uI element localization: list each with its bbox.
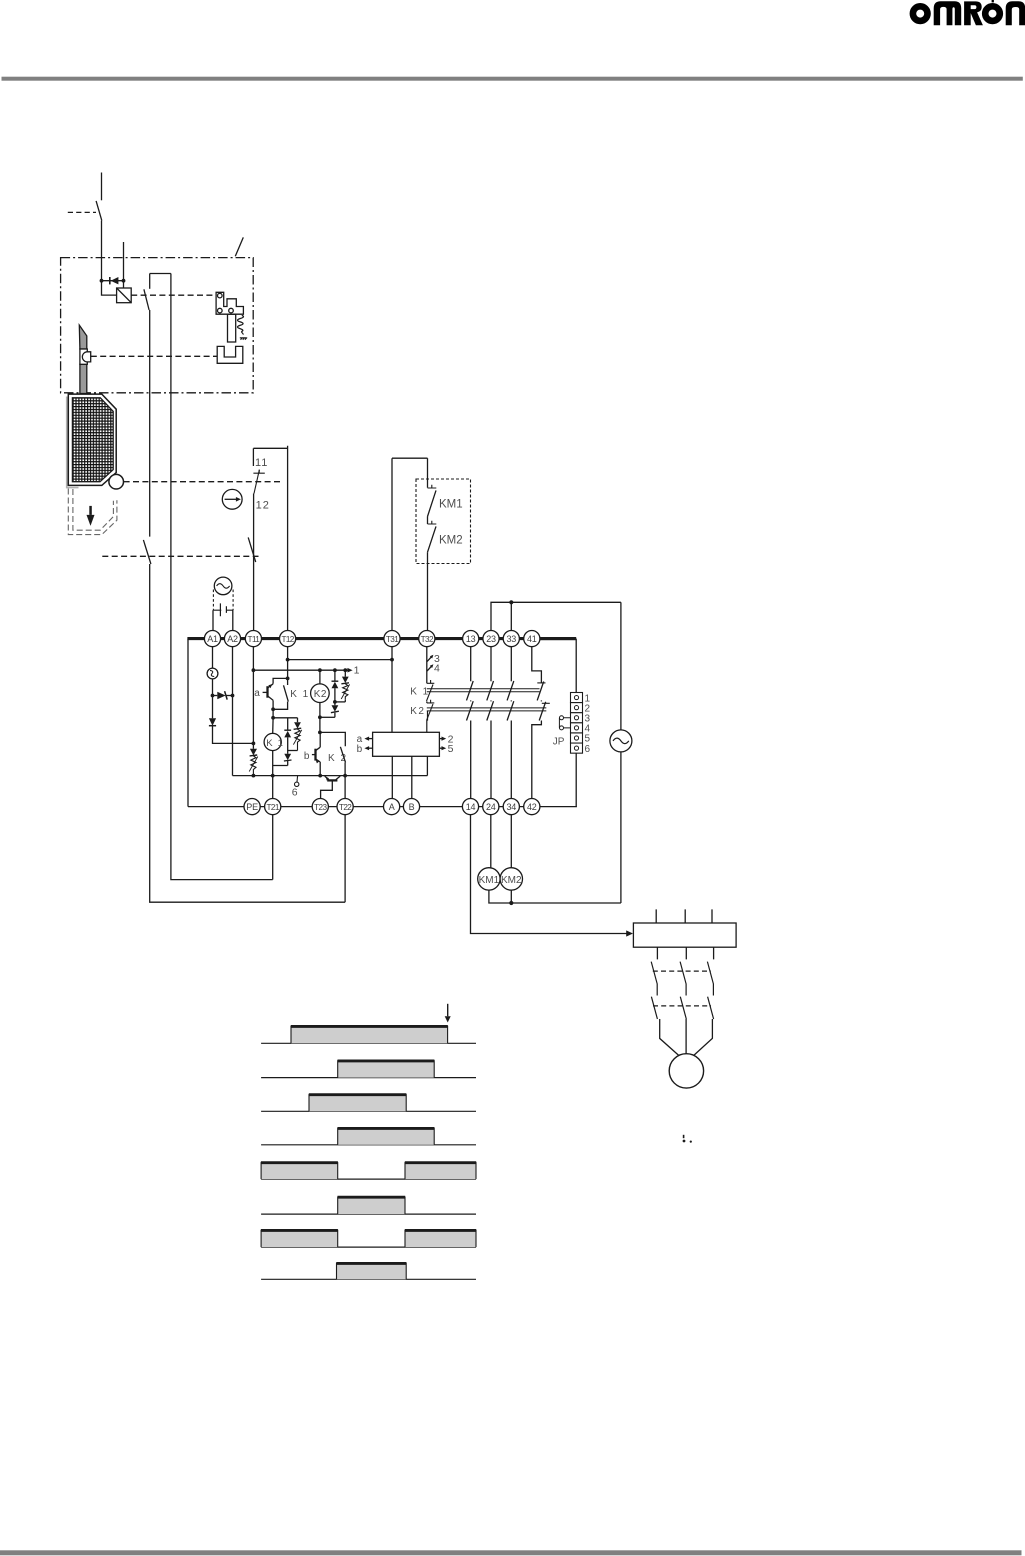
unit bottom terminal row line [188,806,577,808]
open door ghost outline (inner) [73,489,114,530]
wire left contact column middle [149,310,151,537]
svg-text:b: b [357,744,363,755]
wire 14 output to power terminal block [471,815,629,934]
door roller [109,474,124,489]
timing row 6 pulse [338,1197,406,1215]
wire into KM1 NC contact [427,458,429,488]
wire supply to A1 [212,610,214,630]
diode D1 (lock solenoid) [102,280,124,282]
internal 0V rail [233,775,428,777]
wire collector node down [272,709,274,718]
contact 11-12 blade [254,470,259,494]
wire left column to T22 [150,564,345,902]
terminal 14 [462,799,478,815]
svg-text:KM2: KM2 [439,535,463,547]
terminal PE [244,799,260,815]
contact K1 column stubs [273,678,288,709]
junction K2 coil bottom [318,715,322,719]
junction Q1 collector node [271,707,275,711]
terminal 13 [463,631,479,647]
direction-of-actuation symbol (circle with arrow) [222,489,242,509]
wire supply drop to disconnect switch [101,173,103,201]
door opening direction arrow [87,506,95,526]
dashed supply leads [213,590,233,611]
wire control block to terminal B [411,756,413,799]
unit left edge wire to PE [187,639,189,807]
control block (logic) [373,732,440,756]
contact KM1 NC blade [428,490,437,516]
wire 33 riser [510,602,512,630]
junction T22 column at rail [343,774,347,778]
wire Q2 emitter to 0V rail [319,762,321,776]
terminal T32 [419,631,435,647]
svg-text:A2: A2 [227,634,238,644]
timing row 2 baseline [261,1077,476,1079]
operation key (gray tongue) upper part [79,325,87,349]
wire 24 to KM1 coil [490,815,492,868]
connector plug symbol in supply leads [213,603,233,616]
svg-text:A1: A1 [207,634,218,644]
contact KM2 NC blade [428,526,437,552]
diode D2 on A1 column [209,718,216,725]
svg-text:5: 5 [448,743,454,755]
junction T11 column at internal rail [252,742,256,746]
wire right contact column to T21 [171,274,273,880]
terminal B [403,799,419,815]
svg-text:KM2: KM2 [501,875,522,886]
wire A2 column down to 0V rail [232,647,234,776]
svg-text:4: 4 [434,662,440,674]
dashed mechanical link lower contacts [102,555,258,557]
fuse F1 (circle with S) [207,668,218,679]
key notch box [80,349,87,364]
transistor Q3 monitor at T23 [321,776,341,799]
svg-text:42: 42 [527,802,537,812]
wire down to load AC source [620,602,622,730]
wire KM2 coil return [510,890,512,903]
node 1 distribution line with arrow [253,668,352,673]
wire 41-42 right branch vertical (through JP) [575,639,577,807]
diode D9 (zener, down) K2 network [331,702,339,717]
wire A1 column to diode [212,696,214,719]
svg-text:K2: K2 [314,689,327,700]
junction node1 at diode column B [343,668,347,672]
wire T22 riser [344,815,346,903]
svg-text:B: B [409,802,415,812]
junction K1 emitter at T12 column [286,677,290,681]
svg-text:A: A [389,802,395,812]
timing row 4 pulse [338,1128,435,1145]
svg-text:24: 24 [486,802,496,812]
contact 11-12 blade lower on T11 column [248,537,256,562]
terminal T12 [280,631,296,647]
wire bracket 11 header [253,447,287,449]
terminal 41 [524,631,540,647]
svg-text:41: 41 [527,634,537,644]
svg-text:33: 33 [506,634,516,644]
transistor Q2 drive K2 [312,747,320,763]
node 4 arrow label [427,662,440,674]
jumper plug on pins 3-4 [559,716,570,730]
lock solenoid SOL (square with diagonal) [117,288,132,303]
contact K1 driven blade [427,685,434,702]
junction T11 column at 0V rail [252,774,256,778]
top rule [2,77,1023,81]
svg-text:13: 13 [466,634,476,644]
diode D4 (up) beside K1 coil [284,718,291,751]
junction A2 rail [231,694,235,698]
svg-text:11: 11 [255,457,268,469]
svg-text:JP: JP [553,737,565,748]
wire T12-T31 link [288,659,392,661]
junction 33 feedback [509,600,513,604]
output 5 arrow [439,743,453,755]
timing chart [261,1004,476,1280]
wire control block to terminal A [391,756,393,799]
terminal 42 [524,799,540,815]
relay coil K2 [311,670,330,717]
test point 6 [292,776,299,799]
K1 network bottom link [288,750,298,752]
wire T12 column upper [287,446,289,631]
junction K2 output node [318,731,322,735]
terminal A1 [204,631,220,647]
contactor coil KM1 [478,868,500,890]
terminal T23 [312,799,328,815]
relay coil K1 [264,733,284,750]
contactor KM2 main contacts (3-pole) [651,997,713,1019]
disconnect switch S1 blade [96,201,102,221]
junction node 1 at T11 column [252,668,256,672]
wire 0V rail up into control block [426,756,428,775]
svg-text:14: 14 [466,802,476,812]
dashed mechanical link solenoid to latch [131,294,216,296]
safety output pole 2 column (23-24) [487,647,494,799]
wire T31 column into control block [391,647,393,733]
contact K1 blade [284,685,289,701]
door switch contact blade (lower left) [143,540,151,564]
svg-text:T11: T11 [248,635,261,644]
contact KM2 NC tick [428,521,437,524]
operation key lower part [80,364,87,393]
guard door outer frame [68,394,116,485]
terminal T21 [265,799,281,815]
timing chart trigger arrow [445,1004,451,1023]
junction K1 coil return at 0V rail [271,774,275,778]
wire K2 node to contact K2 column [320,732,345,746]
contactor coil KM2 [500,868,522,890]
svg-text:T21: T21 [267,803,280,812]
terminal T31 [384,631,400,647]
svg-text:b: b [304,751,310,762]
door-lock monitor contact blade (upper) [144,289,149,310]
wire K1 coil top lead [272,718,274,734]
timing row 7 pulse [405,1230,476,1247]
svg-text:PE: PE [246,802,258,812]
motor M [669,1054,703,1088]
junction at diode anode [100,279,104,283]
terminal 34 [503,799,519,815]
wire T12 column [287,647,289,679]
wire K2 output row into control block [426,711,429,732]
terminal 11 stub [252,448,254,466]
timing row 8 pulse [336,1263,406,1280]
arrowhead into terminal block [626,930,633,936]
input a arrow [357,734,373,745]
junction Q2 emitter at rail [318,774,322,778]
motor feed lines [660,1019,713,1056]
wire 23 riser [491,602,621,630]
diode D7 (up) K2 network [332,670,339,702]
svg-text:T12: T12 [281,635,294,644]
JP pin labels 1-6 [585,693,591,755]
striker / lock cam (U piece) [217,346,243,363]
K1 linkage double line [427,689,540,692]
node 3 arrow label [427,653,440,665]
key roller plunger (semicircle) [82,352,90,362]
svg-text:1: 1 [354,665,360,677]
dashed link door roller to 11-12 contact [124,481,282,483]
junction K1 coil top node [271,716,275,720]
wire inside box from top to diode node [101,258,103,281]
latch return spring [238,315,244,331]
contact K2 output row tick [427,700,435,703]
terminal 11 bar [253,470,264,473]
svg-text:K 1: K 1 [266,738,284,749]
terminal T22 [337,799,353,815]
varistor R1 on T11 column (zigzag with arrow) [249,756,258,776]
wire stub solenoid supply [123,242,125,281]
open door ghost outline (outer) [68,489,117,535]
safety relay unit top bus (thick) [187,637,575,640]
svg-text:K 1: K 1 [410,687,430,698]
terminal 24 [483,799,499,815]
timing row 3 baseline [261,1110,476,1112]
AC supply source symbol [214,577,232,595]
timing row 7 baseline [261,1246,476,1248]
junction KM2 return [509,901,513,905]
wire 34 to KM2 coil [510,815,512,868]
timing row 2 pulse [338,1060,435,1077]
svg-text:T31: T31 [386,635,399,644]
wire Q2 collector up to K2 node [319,732,321,747]
OMRON logo [913,0,1025,25]
K2 linkage double line [427,708,547,711]
wire T31 riser [391,458,393,630]
svg-text:K2: K2 [410,706,425,717]
contactor KM1 main contacts (3-pole) [651,962,713,996]
junction A1 rail [211,694,215,698]
svg-text:6: 6 [292,787,298,799]
contact K2 blade [340,747,345,763]
junction node1 at K2 coil column [318,668,322,672]
terminal A [384,799,400,815]
note: T11 column break for blade [253,536,255,539]
diode D8 (down) + resistor K2 network [341,670,349,702]
svg-text:12: 12 [256,500,270,512]
transistor Q1 drive K1 [263,684,274,701]
wire fuse to surge diode node [212,679,214,696]
K2 coil bottom link [320,716,335,718]
svg-text:34: 34 [506,802,516,812]
door switch contact bridge top [150,273,171,275]
wire contact K2 to T22 [344,762,346,798]
svg-text:23: 23 [486,634,496,644]
dashed mechanical link key roller to striker [91,355,217,357]
wire between KM1 and KM2 contacts [427,517,429,525]
timing row 6 baseline [261,1213,476,1215]
terminal 23 [483,631,499,647]
surge suppressor diode across A1-A2 [213,691,233,699]
terminal T11 [245,631,261,647]
3-phase feed stubs to KM contacts [657,947,713,959]
wire T11 column [252,647,254,744]
junction at diode cathode [122,279,126,283]
timing row 5 pulse [261,1162,338,1179]
auxiliary output 41-42 column [532,647,550,799]
timing row 5 baseline [261,1178,476,1180]
K1 diode network top link [273,717,297,719]
wire 12 down to T11 [253,494,255,631]
wire between output rows [426,701,428,703]
svg-text:K 1: K 1 [290,689,310,700]
svg-text:a: a [254,688,260,699]
contact KM1 NC tick [428,485,437,488]
wire left contact column upper [149,274,151,289]
terminal 33 [503,631,519,647]
wire K2 node down [319,717,321,732]
wire T32 column down [426,647,428,684]
safety output pole 3 column (33-34) [507,647,514,799]
timing row 5 pulse [405,1162,476,1179]
wire AC source to KM coil common [620,752,622,903]
load AC source symbol [610,730,632,752]
wire T21 column below rail [272,776,274,799]
timing row 3 pulse [309,1094,407,1111]
wire solenoid top lead [123,281,125,288]
wire KM2 contact to T32 [427,552,429,630]
wire Q1 collector down [272,700,274,709]
diode D6 below K1 network [284,751,292,766]
K1 coil bottom link [273,751,288,776]
wire T21 riser [272,815,274,880]
diode D5 (down) + resistor beside K1 coil [293,718,301,751]
input b arrow [357,744,373,755]
wire K1 emitter to T12 node [273,678,288,683]
junction T12 to T31 link [286,658,290,662]
output 2 arrow [439,734,453,746]
wire elbow to solenoid [102,281,117,295]
lock latch lever mechanism [216,292,243,342]
leader line to door switch callout [235,237,243,256]
timing row 1 pulse [291,1026,448,1044]
dashed box around KM1 KM2 NC contacts [416,479,471,564]
svg-text:KM1: KM1 [479,875,500,886]
svg-text:KM1: KM1 [439,499,463,511]
junction K2 network mid [333,700,337,704]
guard door mesh (hatched) [72,398,113,482]
timing row 1 baseline [261,1042,476,1044]
K2 network mid link [335,701,345,703]
wire KM1 coil return [489,890,621,903]
guard door shadow line [67,397,79,488]
svg-text:6: 6 [585,744,591,755]
bottom rule [0,1550,1022,1555]
svg-text:T22: T22 [339,803,352,812]
wire supply to A2 [232,610,234,630]
stray marks below motor [683,1135,692,1143]
timing row 8 baseline [261,1278,476,1280]
wire A1 internal rail elbow to T11 column [213,726,254,744]
terminal A2 [224,631,240,647]
ground anchor of spring [240,332,247,340]
junction link at T31 column [390,658,394,662]
wire switch to interlock box [101,221,103,258]
svg-text:T32: T32 [421,635,434,644]
guard-lock safety door switch enclosure (dash-dot box) [61,258,254,393]
timing row 7 pulse [261,1230,338,1247]
safety output pole 1 column (13-14) [467,647,474,799]
svg-text:T23: T23 [314,803,327,812]
wire 41 to right branch (thick) [540,637,577,640]
diode D3 on T11 column [250,743,258,756]
contact K1 output row tick [427,680,435,683]
contact K2 driven blade [427,704,434,721]
power supply terminal block [633,923,736,947]
wire feedback top link [392,457,428,459]
timing row 4 baseline [261,1144,476,1146]
wire A1 lead down [212,647,214,668]
3-phase supply stubs [656,909,712,923]
junction node1 at diode column A [333,668,337,672]
mechanical link dashed at disconnect switch [68,211,96,213]
JP setting connector [571,693,583,754]
